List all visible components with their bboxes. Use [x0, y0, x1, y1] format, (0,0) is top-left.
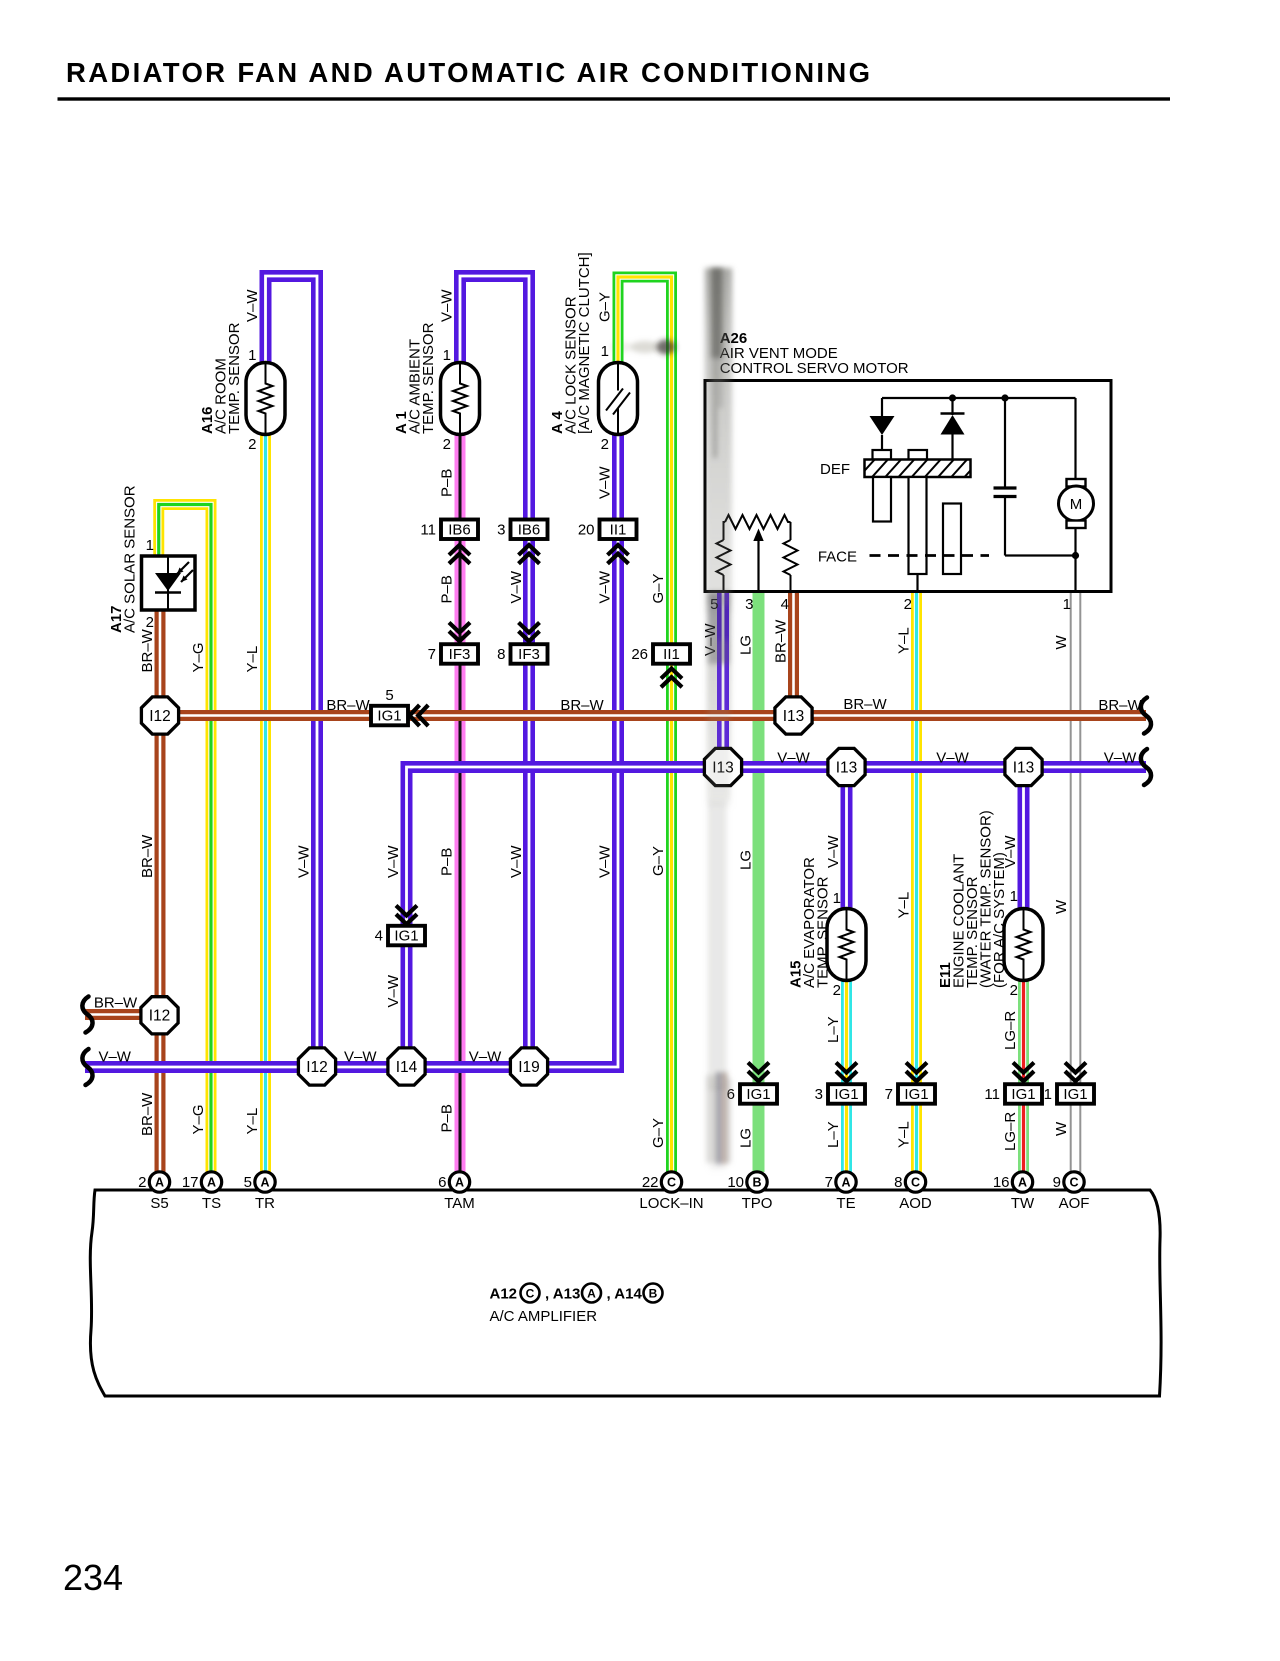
svg-text:V–W: V–W	[244, 289, 261, 322]
svg-text:3: 3	[497, 521, 505, 538]
svg-text:TPO: TPO	[742, 1195, 773, 1212]
svg-text:1: 1	[1063, 596, 1071, 613]
svg-text:1: 1	[1044, 1086, 1052, 1103]
svg-text:C: C	[526, 1287, 535, 1301]
svg-text:1: 1	[1010, 888, 1018, 905]
svg-text:I13: I13	[783, 708, 805, 725]
svg-text:1: 1	[248, 347, 256, 364]
svg-text:V–W: V–W	[597, 466, 614, 499]
svg-text:C: C	[1069, 1176, 1078, 1190]
svg-text:Y–L: Y–L	[896, 627, 913, 654]
svg-text:I13: I13	[836, 759, 858, 776]
svg-text:II1: II1	[610, 521, 627, 538]
svg-text:A: A	[1018, 1176, 1027, 1190]
svg-text:G–Y: G–Y	[597, 292, 614, 322]
svg-text:V–W: V–W	[597, 570, 614, 603]
svg-text:1: 1	[601, 343, 609, 360]
svg-text:TEMP. SENSOR: TEMP. SENSOR	[420, 322, 437, 434]
svg-text:(FOR A/C SYSTEM): (FOR A/C SYSTEM)	[991, 852, 1008, 988]
svg-text:8: 8	[497, 646, 505, 663]
svg-text:L–Y: L–Y	[825, 1121, 842, 1148]
svg-text:V–W: V–W	[439, 289, 456, 322]
svg-text:2: 2	[904, 596, 912, 613]
svg-text:W: W	[1053, 899, 1070, 914]
svg-text:P–B: P–B	[439, 848, 456, 876]
svg-text:FACE: FACE	[818, 549, 857, 566]
svg-text:W: W	[1053, 635, 1070, 650]
svg-text:BR–W: BR–W	[139, 628, 156, 672]
svg-text:V–W: V–W	[936, 750, 969, 767]
svg-text:5: 5	[244, 1174, 252, 1191]
svg-text:11: 11	[420, 521, 436, 538]
svg-text:B: B	[752, 1176, 761, 1190]
svg-text:Y–L: Y–L	[244, 646, 261, 673]
svg-text:1: 1	[443, 347, 451, 364]
svg-text:DEF: DEF	[820, 461, 850, 478]
svg-text:BR–W: BR–W	[139, 834, 156, 878]
svg-text:A: A	[207, 1176, 216, 1190]
svg-text:I12: I12	[149, 1008, 171, 1025]
svg-text:I14: I14	[396, 1059, 418, 1076]
svg-text:BR–W: BR–W	[139, 1092, 156, 1136]
svg-text:TR: TR	[255, 1195, 275, 1212]
svg-text:2: 2	[146, 614, 154, 631]
svg-text:8: 8	[894, 1174, 902, 1191]
svg-text:TW: TW	[1011, 1195, 1035, 1212]
svg-text:7: 7	[825, 1174, 833, 1191]
svg-text:LG: LG	[738, 635, 755, 655]
svg-text:, A14: , A14	[607, 1286, 643, 1303]
svg-text:Y–G: Y–G	[190, 1104, 207, 1134]
svg-text:2: 2	[138, 1174, 146, 1191]
svg-text:V–W: V–W	[597, 845, 614, 878]
svg-text:[A/C MAGNETIC CLUTCH]: [A/C MAGNETIC CLUTCH]	[576, 252, 593, 434]
svg-text:G–Y: G–Y	[650, 573, 667, 603]
svg-text:5: 5	[385, 687, 393, 704]
svg-text:V–W: V–W	[508, 570, 525, 603]
svg-text:IG1: IG1	[746, 1086, 770, 1103]
svg-text:7: 7	[885, 1086, 893, 1103]
svg-text:LG: LG	[738, 1128, 755, 1148]
svg-text:I19: I19	[518, 1059, 540, 1076]
svg-text:IF3: IF3	[449, 646, 471, 663]
svg-text:A/C AMPLIFIER: A/C AMPLIFIER	[490, 1308, 598, 1325]
svg-text:AOF: AOF	[1059, 1195, 1090, 1212]
svg-text:A/C SOLAR SENSOR: A/C SOLAR SENSOR	[122, 485, 139, 633]
svg-text:6: 6	[438, 1174, 446, 1191]
svg-text:B: B	[649, 1287, 658, 1301]
svg-text:BR–W: BR–W	[94, 995, 138, 1012]
svg-text:V–W: V–W	[296, 845, 313, 878]
svg-text:AOD: AOD	[899, 1195, 932, 1212]
svg-text:V–W: V–W	[825, 835, 842, 868]
svg-text:LG–R: LG–R	[1002, 1011, 1019, 1050]
svg-text:CONTROL SERVO MOTOR: CONTROL SERVO MOTOR	[720, 360, 909, 377]
svg-text:IG1: IG1	[834, 1086, 858, 1103]
svg-text:2: 2	[601, 436, 609, 453]
svg-text:TS: TS	[202, 1195, 221, 1212]
svg-text:A: A	[155, 1176, 164, 1190]
svg-text:V–W: V–W	[777, 750, 810, 767]
svg-text:BR–W: BR–W	[773, 619, 790, 663]
svg-text:A: A	[455, 1176, 464, 1190]
svg-text:I13: I13	[1013, 759, 1035, 776]
svg-text:IG1: IG1	[904, 1086, 928, 1103]
svg-text:BR–W: BR–W	[843, 696, 887, 713]
svg-text:234: 234	[63, 1557, 123, 1598]
svg-text:IG1: IG1	[1063, 1086, 1087, 1103]
svg-text:I12: I12	[306, 1059, 328, 1076]
svg-text:11: 11	[984, 1086, 1000, 1103]
svg-text:17: 17	[182, 1174, 199, 1191]
svg-text:LG: LG	[738, 850, 755, 870]
svg-text:A: A	[841, 1176, 850, 1190]
svg-text:IG1: IG1	[394, 928, 418, 945]
svg-text:, A13: , A13	[545, 1286, 580, 1303]
svg-text:Y–L: Y–L	[896, 1121, 913, 1148]
svg-text:Y–L: Y–L	[896, 892, 913, 919]
svg-text:2: 2	[248, 436, 256, 453]
svg-text:W: W	[1053, 1121, 1070, 1136]
svg-text:V–W: V–W	[344, 1049, 377, 1066]
svg-text:BR–W: BR–W	[1098, 697, 1142, 714]
svg-text:G–Y: G–Y	[650, 1118, 667, 1148]
svg-text:2: 2	[1010, 982, 1018, 999]
svg-text:A: A	[260, 1176, 269, 1190]
svg-text:V–W: V–W	[98, 1049, 131, 1066]
svg-text:V–W: V–W	[508, 845, 525, 878]
svg-text:4: 4	[375, 928, 383, 945]
svg-text:M: M	[1070, 496, 1083, 513]
svg-text:IG1: IG1	[377, 708, 401, 725]
svg-text:22: 22	[642, 1174, 659, 1191]
svg-text:TAM: TAM	[444, 1195, 475, 1212]
svg-text:16: 16	[993, 1174, 1010, 1191]
svg-text:BR–W: BR–W	[326, 697, 370, 714]
svg-text:P–B: P–B	[439, 1104, 456, 1132]
svg-text:C: C	[911, 1176, 920, 1190]
svg-text:II1: II1	[663, 646, 680, 663]
svg-text:V–W: V–W	[469, 1049, 502, 1066]
svg-text:RADIATOR FAN AND AUTOMATIC AIR: RADIATOR FAN AND AUTOMATIC AIR CONDITION…	[66, 57, 872, 88]
svg-text:4: 4	[781, 596, 789, 613]
svg-text:1: 1	[146, 537, 154, 554]
svg-text:2: 2	[443, 436, 451, 453]
svg-text:V–W: V–W	[385, 845, 402, 878]
svg-text:3: 3	[815, 1086, 823, 1103]
svg-text:IB6: IB6	[448, 521, 471, 538]
svg-text:9: 9	[1053, 1174, 1061, 1191]
svg-text:A12: A12	[490, 1286, 518, 1303]
svg-text:1: 1	[833, 890, 841, 907]
svg-text:LOCK–IN: LOCK–IN	[639, 1195, 703, 1212]
svg-text:V–W: V–W	[385, 974, 402, 1007]
svg-text:TEMP. SENSOR: TEMP. SENSOR	[226, 322, 243, 434]
svg-text:LG–R: LG–R	[1002, 1112, 1019, 1151]
svg-text:TE: TE	[836, 1195, 855, 1212]
svg-text:TEMP. SENSOR: TEMP. SENSOR	[815, 876, 832, 988]
svg-text:P–B: P–B	[439, 575, 456, 603]
svg-text:L–Y: L–Y	[825, 1016, 842, 1043]
svg-text:C: C	[667, 1176, 676, 1190]
svg-text:20: 20	[578, 521, 595, 538]
svg-text:G–Y: G–Y	[650, 846, 667, 876]
svg-text:2: 2	[833, 982, 841, 999]
svg-text:BR–W: BR–W	[560, 697, 604, 714]
svg-text:S5: S5	[150, 1195, 168, 1212]
svg-text:IG1: IG1	[1011, 1086, 1035, 1103]
svg-text:V–W: V–W	[1104, 750, 1137, 767]
svg-text:I12: I12	[149, 708, 171, 725]
svg-text:A: A	[587, 1287, 596, 1301]
svg-text:Y–L: Y–L	[244, 1108, 261, 1135]
svg-text:3: 3	[745, 596, 753, 613]
svg-text:7: 7	[428, 646, 436, 663]
svg-text:IB6: IB6	[518, 521, 541, 538]
svg-text:IF3: IF3	[518, 646, 540, 663]
svg-text:Y–G: Y–G	[190, 642, 207, 672]
svg-text:10: 10	[727, 1174, 744, 1191]
svg-text:26: 26	[631, 646, 648, 663]
svg-text:P–B: P–B	[439, 469, 456, 497]
